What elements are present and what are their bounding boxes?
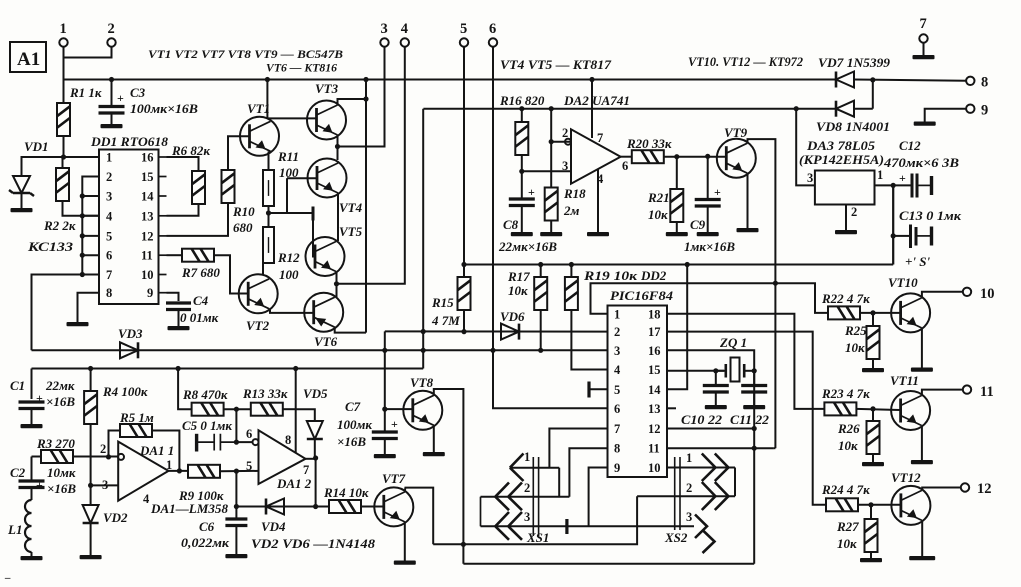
svg-text:12: 12 xyxy=(648,422,661,436)
svg-text:3: 3 xyxy=(807,171,813,185)
svg-text:3: 3 xyxy=(524,510,530,524)
wire VD1 to ground xyxy=(21,193,23,208)
wire bus2 to R16 xyxy=(521,109,523,122)
svg-text:5: 5 xyxy=(614,383,620,397)
svg-text:2: 2 xyxy=(686,481,692,495)
resistor R21 xyxy=(670,189,683,222)
ground DD1 pin8 xyxy=(67,322,89,326)
svg-text:10к: 10к xyxy=(837,536,857,551)
svg-text:6: 6 xyxy=(106,249,112,263)
wire R9 node to C6 xyxy=(235,471,237,518)
op-amp DA1.1 xyxy=(118,442,168,501)
wire terminal1 to bus1 xyxy=(63,58,65,80)
wire VD2 to ground xyxy=(90,523,92,555)
wire bus to R17 xyxy=(540,265,542,278)
svg-text:18: 18 xyxy=(648,307,661,321)
junction bus1 riser xyxy=(363,77,368,82)
wire pin11 to R7 xyxy=(167,254,183,256)
wire DA2 pin4 to ground xyxy=(597,169,599,232)
resistor R16 xyxy=(515,122,528,155)
wire R18 to ground xyxy=(550,221,552,233)
diode VD3 xyxy=(120,342,138,358)
wire VT5 emitter to VT6 collector xyxy=(336,272,338,298)
wire pin11 to VT9 riser xyxy=(774,447,776,449)
ground C7 xyxy=(374,454,396,458)
ground C10 xyxy=(705,405,727,409)
svg-text:12: 12 xyxy=(141,229,154,243)
wire bus1 to terminal 8 xyxy=(854,80,966,81)
wire R17 to lineB xyxy=(540,310,542,350)
svg-text:×16В: ×16В xyxy=(337,434,366,449)
svg-text:R26: R26 xyxy=(837,421,860,436)
wire DA3 output riser xyxy=(892,185,894,264)
connector XS1 arrow 3 xyxy=(495,512,522,540)
svg-text:5: 5 xyxy=(106,229,112,243)
wire DD1 pin8 to ground xyxy=(78,293,100,322)
ground C8 xyxy=(511,232,533,236)
wire DA1 pin3 line xyxy=(91,484,119,486)
svg-text:VT8: VT8 xyxy=(410,375,434,390)
terminal 4 xyxy=(401,38,409,46)
wire XS1/XS2 pin3 common line xyxy=(481,525,695,527)
junction pin12 riser xyxy=(752,426,757,431)
svg-text:2: 2 xyxy=(106,170,112,184)
svg-text:2: 2 xyxy=(100,442,106,456)
wire VT9 collector long riser xyxy=(748,139,776,448)
wire VT11 collector to terminal 11 xyxy=(922,390,963,395)
svg-text:6: 6 xyxy=(614,402,620,416)
wire VT12 collector to terminal 12 xyxy=(922,488,961,491)
svg-text:DA2 UA741: DA2 UA741 xyxy=(563,93,630,108)
svg-text:C5 0 1мк: C5 0 1мк xyxy=(182,418,232,433)
wire C2 to L1 xyxy=(31,488,33,501)
wire to C10 xyxy=(715,371,717,385)
transistor VT1 xyxy=(240,117,279,156)
resistor R20 xyxy=(632,150,664,163)
svg-text:VD2: VD2 xyxy=(103,510,128,525)
wire VD8 riser xyxy=(872,80,874,109)
svg-text:R18: R18 xyxy=(563,186,586,201)
wire C3 to ground xyxy=(111,113,113,124)
op-amp DA2 UA741 xyxy=(571,129,621,183)
wire node to C5 line xyxy=(235,409,237,442)
wire VT11 emitter xyxy=(921,426,923,460)
wire bus to R4 xyxy=(90,369,92,392)
svg-text:R13 33к: R13 33к xyxy=(242,386,288,401)
svg-text:×16В: ×16В xyxy=(47,481,76,496)
wire VT12 emitter xyxy=(921,521,923,556)
ground R21 xyxy=(666,232,688,236)
wire terminal5 riser xyxy=(463,47,465,265)
op-amp DA1.1 input circle xyxy=(118,454,124,460)
ground VD1 xyxy=(11,208,33,212)
junction C3 top xyxy=(109,77,114,82)
ground DA2 xyxy=(587,232,609,236)
wire R23 to VT11 base xyxy=(856,409,900,410)
svg-text:VT1 VT2 VT7 VT8 VT9 — BC547B: VT1 VT2 VT7 VT8 VT9 — BC547B xyxy=(148,47,343,61)
DD1 pin 9 stub xyxy=(159,292,167,294)
wire DA3 pin1 out xyxy=(875,184,894,186)
wire DD2 pin15 to ZQ1 xyxy=(667,370,724,372)
wire DD2 pin18 to R23 xyxy=(667,314,824,409)
connector XS2 comb xyxy=(675,457,680,530)
junction lineB V1 xyxy=(382,348,387,353)
wire ZQ1 right riser down xyxy=(753,371,755,564)
svg-text:10к: 10к xyxy=(845,340,865,355)
diode VD6 xyxy=(501,324,519,340)
svg-text:10мк: 10мк xyxy=(47,465,76,480)
svg-text:VD8 1N4001: VD8 1N4001 xyxy=(816,119,890,134)
svg-text:3: 3 xyxy=(614,344,620,358)
svg-text:C12: C12 xyxy=(899,138,921,153)
junction lineA V2 xyxy=(421,329,426,334)
svg-text:3: 3 xyxy=(562,159,568,173)
svg-text:5: 5 xyxy=(460,21,467,37)
wire DD2 pin12 xyxy=(667,428,754,430)
wire XS1 jumper 1-2 xyxy=(558,468,560,497)
wire DD1 left bus pins 2-7 xyxy=(82,177,99,275)
junction R4 top xyxy=(88,366,93,371)
wire terminal6 riser xyxy=(492,47,494,351)
node bar XS1 common xyxy=(565,519,568,534)
svg-text:VT10: VT10 xyxy=(888,275,918,290)
svg-text:DA1 2: DA1 2 xyxy=(276,476,312,491)
wire VT1 collector to bus1 xyxy=(266,80,268,119)
resistor R7 xyxy=(182,249,214,262)
svg-text:C4: C4 xyxy=(193,293,209,308)
svg-text:0 01мк: 0 01мк xyxy=(180,310,219,325)
svg-text:VT6: VT6 xyxy=(314,334,338,349)
wire DD1 pin7 to VD3 line xyxy=(32,275,83,351)
wire R24 to VT12 base xyxy=(858,504,901,506)
svg-text:8: 8 xyxy=(981,75,988,91)
transistor VT10 xyxy=(891,293,930,332)
svg-text:6: 6 xyxy=(622,159,628,173)
svg-text:XS2: XS2 xyxy=(664,530,688,545)
terminal 9 xyxy=(966,105,974,113)
connector XS2 arrow 3 xyxy=(695,515,715,554)
svg-text:–: – xyxy=(4,572,11,584)
wire R6 to pin13 xyxy=(167,204,199,216)
ground VT7 xyxy=(394,561,416,565)
svg-text:10: 10 xyxy=(141,268,154,282)
wire XS1 pin1 line xyxy=(510,467,559,469)
svg-text:8: 8 xyxy=(285,433,291,447)
wire to R21 xyxy=(676,157,678,189)
svg-text:VD4: VD4 xyxy=(261,519,286,534)
ground C11 xyxy=(743,405,765,409)
junction term6 lineB xyxy=(490,348,495,353)
node bar VT4/VT5 bases xyxy=(312,207,315,221)
wire line A pin2 net xyxy=(385,330,608,332)
wire to R14 xyxy=(316,506,329,508)
junction term5 bus xyxy=(461,262,466,267)
svg-text:R7 680: R7 680 xyxy=(181,265,220,280)
wire VD4 line xyxy=(236,506,315,508)
diode VD8 xyxy=(836,101,854,117)
wire XS1 pin2 line xyxy=(481,496,570,498)
wire ZQ1 right lead xyxy=(744,370,754,372)
svg-text:+: + xyxy=(117,91,124,105)
svg-text:DA3 78L05: DA3 78L05 xyxy=(806,138,876,153)
svg-text:R24 4 7к: R24 4 7к xyxy=(821,482,870,497)
junction lineB V2 xyxy=(421,348,426,353)
wire R25 to ground xyxy=(872,359,874,368)
wire R11 to base node xyxy=(269,206,288,213)
svg-text:R12: R12 xyxy=(277,250,300,265)
wire DA2 pin3 line xyxy=(522,170,571,172)
wire DD1 pin9 to C4 xyxy=(167,293,179,301)
resistor R12 xyxy=(263,227,274,263)
wire +5V bus xyxy=(464,264,893,266)
wire DD2 pin5 stub xyxy=(590,388,608,390)
wire DD2 pin7 to XS1-1 xyxy=(549,429,607,468)
svg-text:100мк: 100мк xyxy=(337,417,372,432)
svg-text:R20 33к: R20 33к xyxy=(626,136,672,151)
wire VT4 base riser xyxy=(286,178,288,213)
wire DD2 pin16 to ZQ1 xyxy=(667,350,754,371)
svg-text:A1: A1 xyxy=(17,49,40,70)
wire VT8 emitter xyxy=(433,425,435,452)
resistor R17 xyxy=(534,277,547,310)
wire VT6 emitter to rail xyxy=(335,327,366,333)
svg-text:VT10. VT12 — KT972: VT10. VT12 — KT972 xyxy=(688,55,803,69)
wire output to R9 xyxy=(169,470,189,472)
wire R1 to pin1 line xyxy=(63,136,65,157)
terminal 7 xyxy=(919,34,927,42)
wire VT9 emitter xyxy=(747,173,749,228)
wire C1 to ground xyxy=(31,409,33,425)
junction R27 xyxy=(868,502,873,507)
transistor VT12 xyxy=(891,486,930,525)
svg-text:2м: 2м xyxy=(563,203,580,218)
wire ZQ1 left lead xyxy=(716,370,726,372)
crystal ZQ1 xyxy=(731,358,740,382)
wire R27 to ground xyxy=(870,552,872,558)
wire C10 to ground xyxy=(715,392,717,405)
svg-text:4: 4 xyxy=(401,21,408,37)
wire R2 to pin4 line xyxy=(63,201,100,216)
svg-text:1: 1 xyxy=(614,307,620,321)
svg-text:470мк×6 3В: 470мк×6 3В xyxy=(883,155,959,170)
junction R17 top xyxy=(538,262,543,267)
junction R17 lineB xyxy=(538,348,543,353)
svg-text:VT4 VT5 — KT817: VT4 VT5 — KT817 xyxy=(500,58,612,72)
wire base node to bar xyxy=(287,212,313,214)
junction R20/R21 xyxy=(674,154,679,159)
DD1 pin 16 stub xyxy=(159,156,167,158)
svg-text:7: 7 xyxy=(597,131,603,145)
junction bus1/VD8 riser xyxy=(870,77,875,82)
junction R11/R12 xyxy=(266,210,271,215)
IC DD2 PIC16F84 box xyxy=(608,306,668,478)
wire XS2 jumper 1-2 xyxy=(734,468,736,497)
svg-text:C11 22: C11 22 xyxy=(730,412,770,427)
capacitor C12 xyxy=(912,174,917,198)
wire DD2 pin8 to XS1-2 xyxy=(569,448,607,497)
diode VD4 xyxy=(266,499,284,515)
ground VT8 xyxy=(423,452,445,456)
junction C5/pin6 xyxy=(234,440,239,445)
terminal 3 xyxy=(380,38,388,46)
wire VT7 emitter xyxy=(404,522,406,561)
connector XS1 arrow 2 xyxy=(495,483,522,511)
svg-text:R21: R21 xyxy=(647,190,670,205)
transistor VT9 xyxy=(717,139,756,178)
svg-text:14: 14 xyxy=(648,383,661,397)
svg-text:22мк×16В: 22мк×16В xyxy=(498,239,557,254)
junction DD1 left bus pin 5 xyxy=(80,233,85,238)
wire DA1 supply bus xyxy=(32,368,424,370)
connector XS1 comb xyxy=(533,457,538,536)
wire C6 to ground xyxy=(235,526,237,554)
junction R1/R2/pin1 xyxy=(61,154,66,159)
resistor R4 xyxy=(84,391,97,424)
transistor VT3 xyxy=(307,101,346,140)
junction DD1 left bus pin 7 xyxy=(80,272,85,277)
wire VT10 collector to terminal 10 xyxy=(922,292,963,297)
wire DD2 pin17 to R24 xyxy=(667,332,825,505)
wire bus1 +V rail xyxy=(64,79,837,81)
transistor VT5 xyxy=(306,237,345,276)
wire R16 to pin3 line xyxy=(521,155,523,171)
wire VD5 to output xyxy=(314,439,316,458)
wire C8 to ground xyxy=(521,206,523,233)
svg-text:8: 8 xyxy=(106,286,112,300)
svg-text:×16В: ×16В xyxy=(46,394,75,409)
junction VT3 collector riser xyxy=(363,96,368,101)
ground VT12 xyxy=(909,556,935,560)
svg-text:4: 4 xyxy=(614,363,621,377)
junction pin2/R5 xyxy=(106,454,111,459)
svg-text:15: 15 xyxy=(141,170,154,184)
resistor R8 xyxy=(192,403,224,416)
junction DD1 left bus pin 3 xyxy=(80,193,85,198)
svg-text:R19 10к: R19 10к xyxy=(583,268,638,283)
svg-text:1: 1 xyxy=(106,151,112,165)
wire C11 to ground xyxy=(753,392,755,405)
wire R10 to VT1 base xyxy=(228,136,250,170)
junction DD1 left bus pin 6 xyxy=(80,253,85,258)
ground R26 xyxy=(862,462,884,466)
wire VT8 collector riser xyxy=(434,389,464,564)
inductor L1 xyxy=(25,500,31,552)
junction C11/ZQ1 xyxy=(752,368,757,373)
wire terminal7 lead xyxy=(923,43,925,55)
op-amp DA1.2 xyxy=(259,430,306,484)
node bar DD2 pin5 xyxy=(587,382,590,398)
transistor VT4 xyxy=(308,159,347,198)
svg-text:VT4: VT4 xyxy=(339,200,363,215)
svg-text:КС133: КС133 xyxy=(27,239,74,254)
ground VT9 xyxy=(737,228,759,232)
capacitor C1 xyxy=(19,402,45,409)
svg-text:VT12: VT12 xyxy=(891,470,921,485)
transistor VT11 xyxy=(891,391,930,430)
svg-text:R8 470к: R8 470к xyxy=(182,387,228,402)
wire to R27 xyxy=(870,505,872,519)
junction DA1.2 output xyxy=(313,455,318,460)
wire DD2 pin10 to XS2-1 xyxy=(667,467,694,469)
wire L1 to ground xyxy=(31,552,33,556)
svg-text:13: 13 xyxy=(141,209,154,223)
wire DD2 pin14 riser xyxy=(667,265,687,390)
resistor R5 xyxy=(120,424,152,437)
ground L1 xyxy=(21,556,43,560)
svg-text:0,022мк: 0,022мк xyxy=(181,535,229,550)
svg-text:+: + xyxy=(391,417,398,431)
wire VD3/pin3 line xyxy=(32,349,609,351)
svg-text:22мк: 22мк xyxy=(45,378,75,393)
capacitor C6 xyxy=(225,519,247,526)
svg-text:5: 5 xyxy=(246,459,252,473)
svg-text:100мк×16В: 100мк×16В xyxy=(130,101,198,116)
svg-text:2: 2 xyxy=(108,21,115,37)
svg-text:1: 1 xyxy=(524,450,530,464)
ground terminal 9 xyxy=(914,122,936,126)
wire R21 to ground xyxy=(676,222,678,232)
diode VD2 xyxy=(83,505,99,523)
svg-text:10к: 10к xyxy=(648,207,668,222)
svg-text:13: 13 xyxy=(648,402,661,416)
svg-text:VT2: VT2 xyxy=(246,318,270,333)
svg-text:6: 6 xyxy=(489,21,496,37)
resistor R19 xyxy=(565,277,578,310)
svg-text:ZQ 1: ZQ 1 xyxy=(719,335,747,350)
svg-text:7: 7 xyxy=(614,422,620,436)
svg-text:PIC16F84: PIC16F84 xyxy=(610,288,674,303)
junction bus2 DA3 xyxy=(794,106,799,111)
svg-text:VD1: VD1 xyxy=(24,139,49,154)
wire to C11 (tap) xyxy=(753,371,755,385)
junction pin2 xyxy=(549,139,554,144)
wire VT1 emitter to R11 xyxy=(268,152,270,171)
resistor R24 xyxy=(826,498,858,511)
svg-text:R23 4 7к: R23 4 7к xyxy=(821,386,870,401)
wire bus2 to R18 xyxy=(550,109,552,188)
wire bus2 rail xyxy=(423,108,836,110)
wire junction to terminal 3 xyxy=(338,47,385,147)
svg-text:C1: C1 xyxy=(10,378,25,393)
junction pin1 line/VT9 riser xyxy=(773,281,778,286)
DD1 pin 10 stub xyxy=(159,274,167,276)
svg-text:7: 7 xyxy=(303,463,309,477)
capacitor C10 xyxy=(703,386,729,393)
op-amp DA1.2 input circle xyxy=(253,439,259,445)
terminal 5 xyxy=(460,38,468,46)
svg-text:4: 4 xyxy=(143,492,150,506)
ground C6 xyxy=(225,554,247,558)
wire bus2 to DA3 pin3 xyxy=(796,109,815,186)
ground terminal 7 xyxy=(913,55,935,59)
junction divider bus2 xyxy=(549,106,554,111)
wire output down to R14 line xyxy=(315,458,317,507)
svg-text:VT3: VT3 xyxy=(315,81,339,96)
svg-text:C7: C7 xyxy=(345,399,361,414)
svg-text:4: 4 xyxy=(106,209,113,223)
connector XS1 arrow 1 xyxy=(510,454,524,482)
svg-text:R15: R15 xyxy=(431,295,454,310)
svg-text:R10: R10 xyxy=(232,204,255,219)
svg-text:10к: 10к xyxy=(508,283,528,298)
wire V1 riser to VT8 base xyxy=(385,331,413,409)
svg-text:C10 22: C10 22 xyxy=(681,412,723,427)
wire VT4 emitter to VT5 collector xyxy=(337,193,339,241)
junction C13 xyxy=(891,233,896,238)
svg-text:R1 1к: R1 1к xyxy=(69,85,102,100)
svg-text:R5 1м: R5 1м xyxy=(119,410,154,425)
wire R3 to C2 xyxy=(31,457,33,482)
